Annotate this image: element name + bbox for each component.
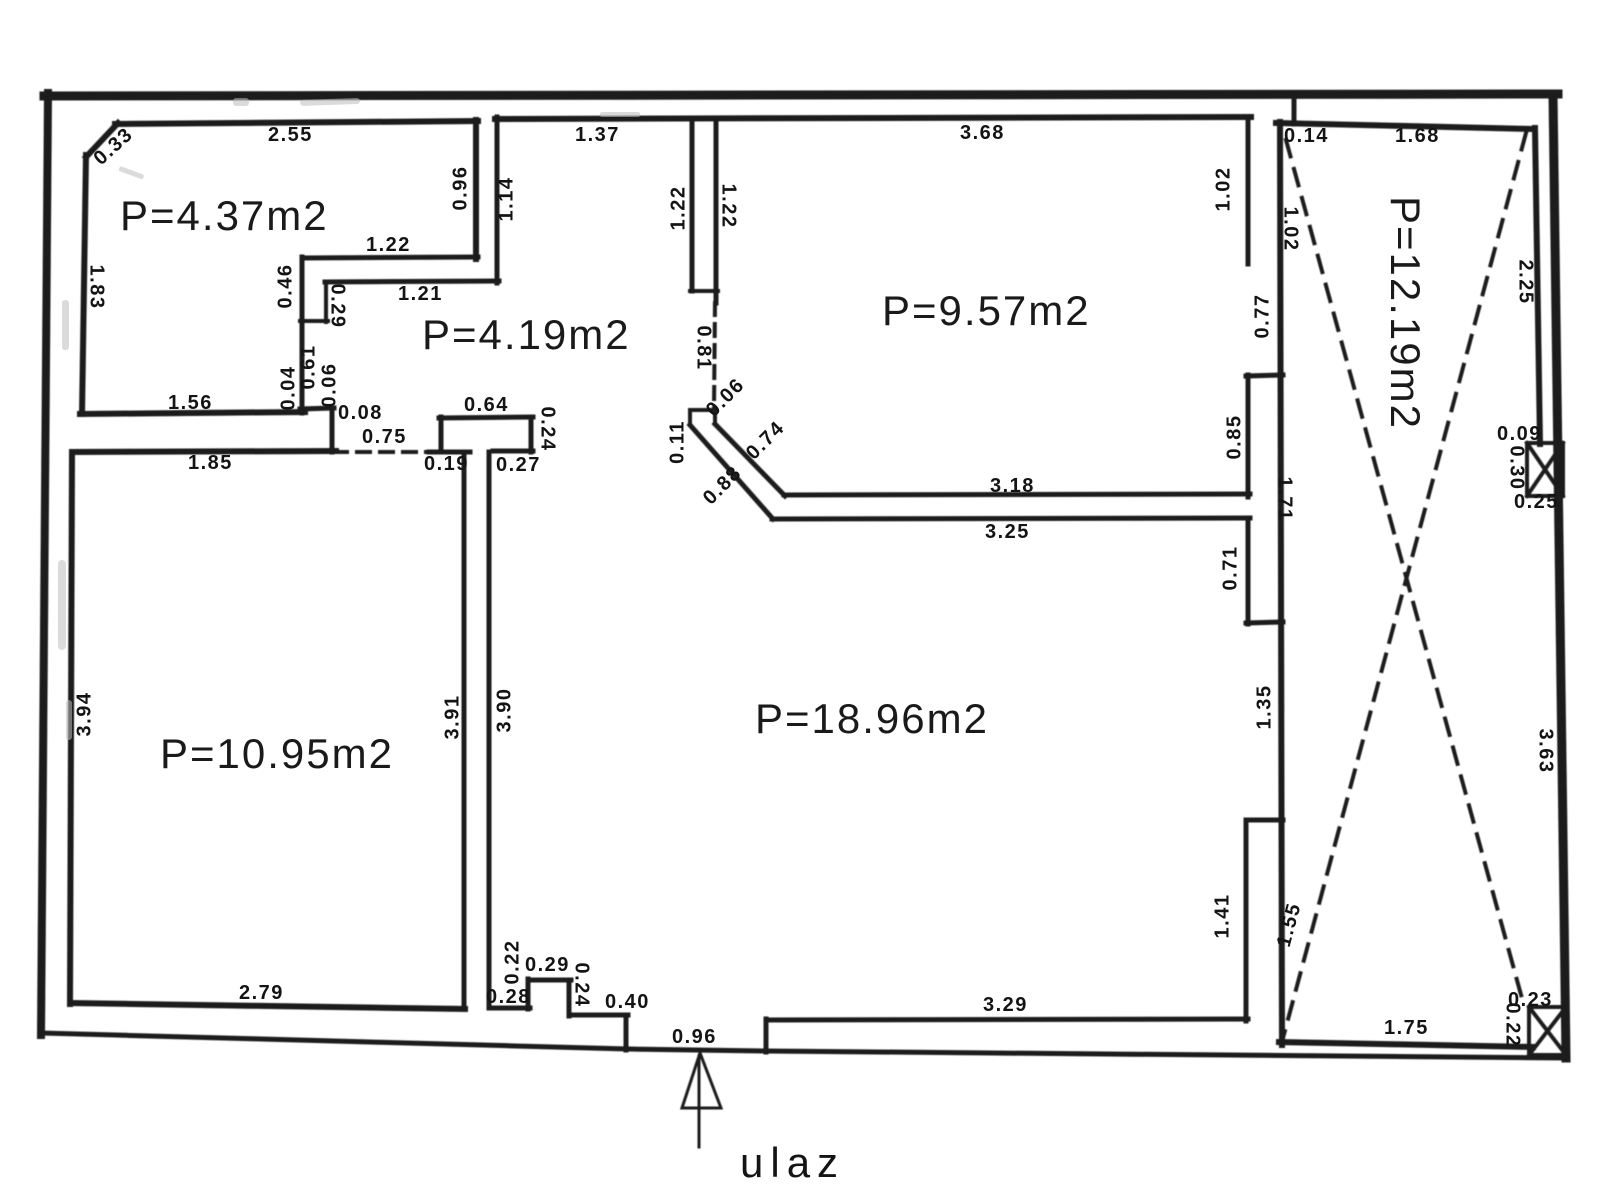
wall pair cap (690, 289, 718, 293)
svg-text:0.40: 0.40 (605, 991, 650, 1013)
corner box right (713, 408, 717, 424)
closet right wall (529, 417, 534, 452)
svg-text:0.30: 0.30 (1506, 446, 1528, 491)
wall step upper (1246, 375, 1283, 376)
wall pair right (1.22) (714, 118, 719, 303)
svg-text:1.85: 1.85 (188, 452, 233, 474)
wall step lower (1246, 818, 1283, 823)
scan smudge top left corner (300, 98, 360, 106)
svg-text:1.68: 1.68 (1395, 125, 1440, 147)
svg-text:2.79: 2.79 (239, 982, 284, 1004)
wall tick (300, 319, 328, 323)
diagonal wall lower (0.88) (690, 425, 773, 519)
svg-text:1.35: 1.35 (1253, 685, 1275, 730)
svg-text:0.46: 0.46 (274, 264, 296, 309)
wall 0.29 vertical (324, 282, 328, 322)
wall 0.08 step (300, 408, 334, 409)
dashed terrace diagonal A (1286, 140, 1523, 1002)
wall top rooms P=4.19 P=9.57 (495, 117, 1251, 119)
wall 0.85 (1246, 375, 1251, 497)
svg-text:0.06: 0.06 (318, 363, 340, 408)
wall top room P=4.37 (115, 121, 478, 124)
svg-text:3.68: 3.68 (960, 122, 1005, 144)
svg-text:P=9.57m2: P=9.57m2 (882, 287, 1091, 334)
svg-text:0.14: 0.14 (1284, 125, 1329, 147)
svg-text:0.85: 0.85 (1223, 415, 1245, 460)
svg-text:1.02: 1.02 (1280, 207, 1302, 252)
wall step 0.24 vertical (567, 980, 572, 1016)
wall left room P=4.19 (1.14) (495, 117, 500, 283)
svg-text:0.24: 0.24 (571, 963, 593, 1008)
wall right room P=4.37 (0.96) (473, 120, 479, 259)
svg-text:1.56: 1.56 (168, 392, 213, 414)
wall step 0.40 (569, 1013, 628, 1018)
wall pair left (1.22) (690, 118, 695, 291)
svg-text:0.96: 0.96 (449, 166, 471, 211)
svg-text:2.25: 2.25 (1515, 260, 1537, 305)
wall terrace right inner (2.25) (1535, 128, 1540, 444)
wall left room P=10.95 (3.94) (70, 452, 72, 1004)
svg-text:1.75: 1.75 (1384, 1017, 1429, 1039)
corner box left (688, 410, 692, 425)
svg-text:0.24: 0.24 (537, 407, 559, 452)
wall 0.46 / 0.61 vertical (300, 257, 305, 413)
svg-text:3.25: 3.25 (985, 521, 1030, 543)
wall step 0.29 top (528, 978, 571, 983)
svg-text:3.63: 3.63 (1535, 729, 1557, 774)
closet top wall (439, 417, 533, 418)
wall terrace bottom (1.75) (1279, 1042, 1533, 1047)
wall bottom room P=10.95 (2.79) (70, 1003, 465, 1009)
svg-text:1.37: 1.37 (575, 124, 620, 146)
svg-text:2.55: 2.55 (268, 124, 313, 146)
wall terrace top (1276, 123, 1534, 129)
svg-text:1.14: 1.14 (495, 177, 517, 222)
scan smudge left margin (62, 300, 69, 350)
wall step 0.22 vertical (526, 979, 531, 1009)
svg-text:P=4.37m2: P=4.37m2 (120, 192, 329, 239)
wall step 0.28 (489, 1006, 530, 1011)
svg-text:0.27: 0.27 (496, 454, 541, 476)
wall step mid (1246, 622, 1283, 623)
wall 3.18 (784, 494, 1250, 495)
svg-text:0.22: 0.22 (501, 940, 523, 985)
wall 0.71 (1246, 518, 1251, 624)
svg-text:3.29: 3.29 (983, 994, 1028, 1016)
svg-text:3.90: 3.90 (493, 688, 515, 733)
wall 1.41 (1244, 820, 1249, 1021)
svg-text:0.22: 0.22 (1502, 1003, 1524, 1048)
dashed terrace diagonal B (1283, 133, 1526, 1038)
svg-text:0.09: 0.09 (1497, 423, 1542, 445)
svg-text:ulaz: ulaz (740, 1139, 845, 1186)
svg-text:1.21: 1.21 (398, 283, 443, 305)
corner box top (690, 408, 716, 412)
svg-text:1.22: 1.22 (667, 186, 689, 231)
svg-text:1.71: 1.71 (1274, 477, 1296, 522)
wall 1.21 (325, 281, 499, 282)
outer wall top (44, 94, 1558, 96)
svg-text:1.22: 1.22 (718, 184, 740, 229)
wall 1.02 left of terrace strip (1246, 117, 1251, 264)
svg-text:0.11: 0.11 (666, 420, 688, 464)
wall 1.85 top of room P=10.95 (72, 451, 336, 452)
wall 3.25 (772, 518, 1250, 519)
wall left of double partition (3.91) (462, 452, 467, 1008)
shaft box lower (1529, 1007, 1566, 1055)
wall stub 0.14 (1292, 97, 1297, 124)
wall step down to entrance (624, 1015, 629, 1050)
svg-text:1.22: 1.22 (366, 234, 411, 256)
svg-text:0.77: 0.77 (1251, 294, 1273, 339)
svg-text:0.08: 0.08 (338, 402, 383, 424)
svg-text:0.25: 0.25 (1514, 491, 1559, 513)
svg-text:P=4.19m2: P=4.19m2 (422, 311, 631, 358)
wall 1.22 bottom of room P=4.37 (302, 257, 478, 258)
svg-text:0.29: 0.29 (525, 954, 570, 976)
svg-text:0.29: 0.29 (327, 284, 349, 329)
svg-text:0.71: 0.71 (1219, 546, 1241, 591)
svg-text:0.64: 0.64 (464, 394, 509, 416)
svg-text:1.83: 1.83 (86, 265, 108, 310)
svg-text:3.18: 3.18 (990, 475, 1035, 497)
svg-text:P=10.95m2: P=10.95m2 (160, 730, 394, 777)
svg-text:P=12.19m2: P=12.19m2 (1382, 196, 1429, 430)
door dashed 0.75 (334, 450, 440, 454)
svg-text:3.94: 3.94 (73, 692, 95, 737)
svg-text:0.96: 0.96 (672, 1026, 717, 1048)
wall sill under closet (429, 450, 470, 455)
wall chamfer room P=4.37 (86, 123, 118, 157)
wall 1.56 (80, 412, 305, 414)
diagonal wall upper (0.74) (715, 424, 785, 496)
svg-text:1.41: 1.41 (1211, 894, 1233, 939)
outer wall bottom (40, 1033, 1567, 1058)
svg-text:0.19: 0.19 (424, 453, 469, 475)
entrance arrow (698, 1056, 701, 1147)
svg-text:0.04: 0.04 (277, 366, 299, 411)
wall main right of rooms (1280, 122, 1282, 1045)
wall step down to door (330, 408, 335, 452)
svg-text:3.91: 3.91 (441, 695, 463, 740)
svg-text:0.61: 0.61 (297, 345, 319, 390)
closet bottom wall (493, 449, 533, 454)
outer wall left (41, 93, 48, 1035)
svg-text:P=18.96m2: P=18.96m2 (755, 695, 989, 742)
dashed wall 0.81 (714, 303, 715, 408)
shaft box upper (1527, 443, 1563, 496)
svg-text:0.28: 0.28 (486, 986, 531, 1008)
outer wall right (1553, 94, 1566, 1058)
wall step at entrance right (764, 1019, 769, 1052)
wall right of double partition (3.90) (487, 452, 492, 1008)
svg-text:0.75: 0.75 (362, 426, 407, 448)
wall left room P=4.37 (1.83) (82, 155, 86, 414)
svg-text:0.81: 0.81 (693, 326, 715, 371)
closet left wall (439, 417, 444, 452)
wall 3.29 (766, 1019, 1248, 1020)
svg-text:1.02: 1.02 (1212, 167, 1234, 212)
